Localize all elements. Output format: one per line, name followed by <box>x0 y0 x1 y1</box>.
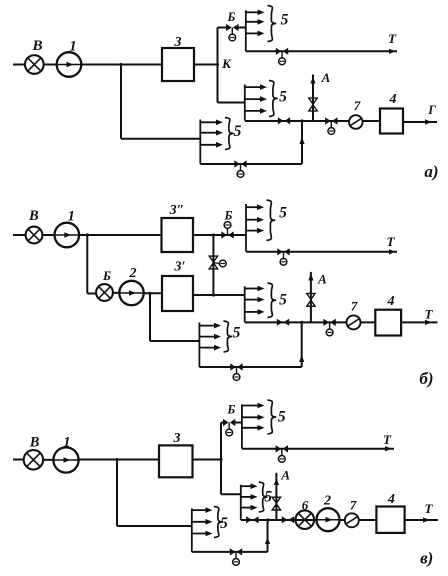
valve on riser (b) <box>209 256 226 269</box>
junction drop (a) <box>119 63 122 66</box>
apparatus 4 (v) <box>376 507 404 533</box>
flow arrow return (v) <box>265 537 270 544</box>
control valve Б (b) <box>221 222 233 239</box>
svg-text:5: 5 <box>234 123 242 140</box>
apparatus 4 (a) <box>380 109 403 134</box>
pump 7 (b) <box>347 315 361 329</box>
svg-text:6: 6 <box>302 498 309 513</box>
vent valve on A riser (a) <box>309 98 317 111</box>
heat exchanger 5 middle (a) <box>245 81 287 121</box>
wire to upper hx (a) <box>238 27 245 29</box>
flow arrow return (b) <box>299 355 304 362</box>
heat exchanger 5 middle (b) <box>245 283 287 322</box>
svg-text:А: А <box>321 70 331 85</box>
wire drop to lower hx (v) <box>116 460 118 527</box>
wire K to middle hx (a) <box>218 102 245 104</box>
wire box3 to node K (a) <box>194 64 218 66</box>
wire feed lower hx (b) <box>150 340 199 342</box>
svg-text:А: А <box>317 272 327 287</box>
flow arrow A (v) <box>274 478 279 485</box>
svg-text:5: 5 <box>220 515 228 532</box>
junction branch2 (b) <box>86 233 89 236</box>
pump 1 (a) <box>57 52 82 77</box>
heat exchanger 5 lower (a) <box>200 118 241 164</box>
svg-text:1: 1 <box>69 39 76 55</box>
wire pump1 to box3 (v) <box>79 459 159 461</box>
wire outlet Г (a) <box>403 121 437 123</box>
wire riser (v) <box>220 423 222 495</box>
control valve bottom loop (a) <box>234 160 246 177</box>
wire pump1 to box (b) <box>79 234 161 236</box>
heat exchanger 5 lower (b) <box>199 321 240 367</box>
svg-text:б): б) <box>419 369 433 388</box>
flow arrow A (a) <box>310 77 315 84</box>
wire lower main (v) <box>241 519 377 521</box>
apparatus 3' (b) <box>162 276 193 311</box>
control valve before pump (b) <box>323 319 335 336</box>
apparatus 4 (b) <box>375 310 401 336</box>
svg-text:Б: Б <box>227 10 236 24</box>
wire drop to lower hx (a) <box>120 65 122 139</box>
svg-text:Т: Т <box>425 501 434 516</box>
svg-text:А: А <box>280 468 290 483</box>
svg-text:5: 5 <box>281 12 289 29</box>
flow arrow outlet (b) <box>425 320 432 325</box>
svg-text:В: В <box>28 208 39 224</box>
wire feed lower hx (a) <box>121 138 200 140</box>
wire (b) <box>42 234 54 236</box>
wire bottom loop (a) <box>200 163 302 165</box>
pump 2 (b) <box>119 281 143 305</box>
svg-text:4: 4 <box>389 92 397 107</box>
wire to T (v) <box>242 448 394 450</box>
apparatus 3'' (b) <box>162 218 194 252</box>
pump 1 (b) <box>55 223 80 248</box>
wire lower main (b) <box>245 321 376 323</box>
wire (b) <box>113 292 119 294</box>
wire to upper hx (v) <box>235 422 242 424</box>
svg-text:7: 7 <box>350 498 357 513</box>
wire: inlet stub (a) <box>13 64 26 66</box>
svg-text:2: 2 <box>323 494 331 509</box>
svg-text:1: 1 <box>68 209 75 225</box>
junction riser (b) <box>212 233 215 236</box>
wire return riser (v) <box>267 520 269 552</box>
svg-text:Б: Б <box>102 269 111 283</box>
flow arrow A (b) <box>308 274 313 281</box>
wire drop to branch2 (b) <box>86 235 88 294</box>
heat exchanger 5 lower (v) <box>192 507 228 552</box>
svg-text:5: 5 <box>279 292 287 309</box>
svg-text:К: К <box>221 56 232 71</box>
shutoff valve В (v) <box>24 450 43 469</box>
shutoff valve Б (b) <box>96 284 113 301</box>
wire: inlet stub (b) <box>13 234 26 236</box>
wire feed lower hx (v) <box>117 525 192 527</box>
junction return (b) <box>300 321 303 324</box>
svg-text:4: 4 <box>387 492 395 507</box>
wire pump2 to box3' (b) <box>144 292 162 294</box>
control valve before pump (a) <box>325 117 337 134</box>
valve after middle hx (v) <box>246 516 258 523</box>
wire (a) <box>44 64 57 66</box>
heat exchanger 5 upper (v) <box>242 400 286 449</box>
junction drop (b) <box>148 292 151 295</box>
wire bottom loop (b) <box>199 366 301 368</box>
wire pump1 to box3 (a) <box>81 64 162 66</box>
apparatus 3 (v) <box>159 445 193 477</box>
wire bottom loop (v) <box>192 551 268 553</box>
svg-text:3″: 3″ <box>169 203 185 218</box>
wire riser K (a) <box>217 28 219 103</box>
flow arrow T (a) <box>389 49 396 54</box>
wire box3' to middle hx (b) <box>193 294 245 296</box>
wire to T (b) <box>246 251 397 253</box>
flow arrow return (a) <box>299 137 304 144</box>
vent valve on A riser (v) <box>272 497 280 510</box>
svg-text:Т: Т <box>425 307 434 322</box>
wire: inlet stub (v) <box>13 459 24 461</box>
svg-text:5: 5 <box>278 409 286 426</box>
control valve on T line (v) <box>276 445 288 462</box>
svg-text:5: 5 <box>279 205 287 222</box>
wire to valve Б (a) <box>218 27 227 29</box>
control valve bottom loop (b) <box>230 363 242 380</box>
control valve bottom loop (v) <box>230 548 242 565</box>
valve after middle hx (b) <box>277 319 289 326</box>
svg-text:Т: Т <box>383 432 392 447</box>
control valve on T line (b) <box>277 248 289 265</box>
pump 1 (v) <box>53 447 78 472</box>
wire return riser (b) <box>301 322 303 367</box>
wire to valve Б (v) <box>221 422 223 424</box>
svg-text:Б: Б <box>224 209 233 223</box>
pump 7 (a) <box>349 115 363 129</box>
svg-text:7: 7 <box>354 98 361 113</box>
junction return (a) <box>300 119 303 122</box>
wire outlet T (v) <box>405 519 438 521</box>
wire riser A (b) <box>310 272 312 323</box>
heat exchanger 5 middle (v) <box>241 482 273 520</box>
shutoff valve В (a) <box>25 55 44 74</box>
svg-text:4: 4 <box>387 294 395 309</box>
control valve Б (v) <box>223 419 235 436</box>
valve before unit 6 (v) <box>282 516 294 523</box>
wire return riser (a) <box>301 121 303 164</box>
wire outlet T (b) <box>401 321 437 323</box>
svg-text:в): в) <box>420 549 433 568</box>
flow arrow T (b) <box>389 249 396 254</box>
apparatus 3 (a) <box>162 48 194 81</box>
svg-text:5: 5 <box>279 89 287 106</box>
junction drop (v) <box>115 458 118 461</box>
shutoff valve 6 (v) <box>296 510 315 529</box>
valve after middle hx (a) <box>278 117 290 124</box>
wire riser A (v) <box>275 473 277 520</box>
junction K (a) <box>216 63 219 66</box>
svg-text:а): а) <box>424 162 438 181</box>
svg-text:В: В <box>29 435 40 451</box>
control valve on T line (a) <box>276 48 288 65</box>
svg-text:1: 1 <box>63 435 70 451</box>
wire to T (a) <box>246 50 397 52</box>
wire box3 to riser (v) <box>193 459 222 461</box>
heat exchanger 5 upper (a) <box>246 6 289 52</box>
svg-text:Г: Г <box>427 103 436 117</box>
wire lower main (a) <box>245 120 380 122</box>
wire riser between mains (b) <box>212 235 214 295</box>
flow arrow outlet (v) <box>423 517 430 522</box>
svg-text:3: 3 <box>174 35 182 50</box>
shutoff valve В (b) <box>26 227 43 244</box>
wire drop to lower hx (b) <box>149 293 151 341</box>
svg-text:7: 7 <box>351 299 358 314</box>
wire branch2 (b) <box>87 293 96 295</box>
wire (v) <box>43 459 53 461</box>
svg-text:2: 2 <box>129 266 137 281</box>
junction riser bottom (b) <box>212 293 215 296</box>
wire box to upper hx (b) <box>193 234 246 236</box>
control valve Б (a) <box>226 24 238 41</box>
svg-text:Т: Т <box>387 234 396 249</box>
wire riser A (a) <box>312 75 314 122</box>
flow arrow T (v) <box>385 446 392 451</box>
vent valve on A riser (b) <box>307 293 315 306</box>
svg-text:3′: 3′ <box>174 260 186 275</box>
pump 2 (v) <box>317 508 340 531</box>
wire riser to middle hx (v) <box>221 493 241 495</box>
svg-text:5: 5 <box>233 325 241 342</box>
junction riser (v) <box>219 458 222 461</box>
heat exchanger 5 upper (b) <box>246 200 287 252</box>
flow arrow Г (a) <box>425 119 432 124</box>
pump 7 (v) <box>345 513 359 527</box>
junction return (v) <box>266 518 269 521</box>
svg-text:Т: Т <box>388 31 397 46</box>
svg-text:В: В <box>31 38 42 54</box>
svg-text:Б: Б <box>226 403 235 417</box>
svg-text:3: 3 <box>173 431 181 446</box>
